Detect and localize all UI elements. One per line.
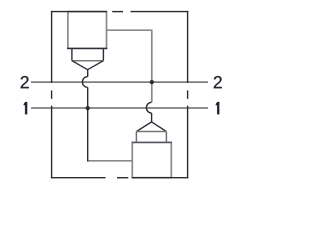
wire: tap from valve A right side down to line 2 [107, 30, 152, 102]
valve B body cap (bottom cartridge) [132, 142, 171, 177]
valve B poppet (triangle pointing up) [136, 122, 166, 132]
crossover hop over line 2 (no connection) [82, 77, 87, 88]
crossover hop over line 1 (no connection) [146, 102, 151, 113]
valve A seat bottom line (gray) [72, 60, 104, 62]
enclosure top edge [51, 11, 107, 13]
valve A poppet (triangle pointing down) [72, 61, 104, 70]
valve B body parting line (full width) [132, 141, 172, 143]
enclosure right edge [187, 11, 189, 83]
enclosure left edge [51, 11, 53, 83]
valve A body parting line (dark, full width) [67, 47, 107, 49]
wire: from line-1 junction down to valve B tap corner [87, 108, 89, 162]
valve B seat side walls (gray) [135, 132, 137, 143]
wire: valve A stem down from poppet apex [87, 70, 89, 77]
wire: port line 1 [31, 107, 208, 109]
wire: port line 2 [31, 81, 208, 83]
enclosure bottom edge [51, 177, 106, 179]
wire: stem continues down to line 1 [87, 87, 89, 108]
port label 1 (left) [24, 102, 27, 114]
port label 2 (left) [21, 76, 29, 88]
valve B seat top line (gray) [136, 131, 166, 133]
port label 2 (right) [214, 76, 222, 88]
junction dot on line 2 [150, 80, 154, 84]
valve A body cap (top cartridge) [68, 12, 107, 49]
enclosure chain-line box [51, 11, 188, 179]
wire: tap from valve B left side to junction under line 1 [88, 160, 133, 162]
wire: valve B stem up to poppet apex [151, 113, 153, 122]
valve A seat side walls [71, 48, 73, 60]
junction dot on line 1 [86, 106, 90, 110]
port label 1 (right) [216, 102, 219, 114]
